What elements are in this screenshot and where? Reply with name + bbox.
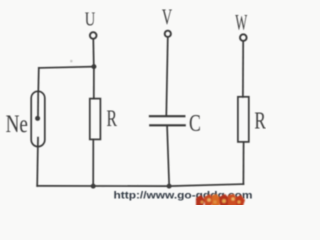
terminal W (240, 34, 247, 41)
wire resistor R1 bottom to rail (92, 140, 94, 187)
wire V terminal to capacitor (166, 37, 168, 116)
wire resistor R2 bottom to rail (242, 142, 244, 184)
terminal U (90, 32, 97, 39)
junction bottom middle (167, 184, 172, 189)
wire U terminal to top junction (92, 39, 95, 67)
bottom rail wire (37, 184, 243, 186)
resistor R1 body (90, 99, 101, 140)
wire junction to resistor R1 top (93, 67, 95, 99)
svg-text:C: C (189, 111, 201, 137)
wire capacitor to bottom rail (167, 126, 169, 186)
svg-text:U: U (85, 9, 96, 31)
neon lamp top electrode (37, 92, 39, 117)
capacitor C bottom plate (150, 124, 185, 126)
svg-text:V: V (162, 4, 172, 29)
resistor R2 body (238, 97, 249, 142)
wire lamp branch upper (37, 68, 40, 92)
terminal V (165, 31, 171, 37)
junction bottom left (91, 184, 96, 189)
svg-text:R: R (254, 108, 266, 135)
junction top (91, 64, 96, 69)
background paper (0, 0, 266, 205)
wire W terminal to resistor R2 top (242, 41, 244, 97)
svg-text:W: W (235, 10, 247, 35)
wire top horizontal to lamp branch (39, 67, 94, 68)
capacitor C top plate (150, 115, 185, 117)
paper speck (70, 60, 72, 62)
neon lamp dot electrode (35, 116, 40, 121)
neon lamp bottom electrode and wire to bottom rail (36, 138, 39, 186)
neon lamp Ne envelope (31, 91, 45, 146)
svg-text:Ne: Ne (6, 111, 28, 138)
svg-text:R: R (107, 106, 118, 132)
watermark red logo blobs (196, 194, 245, 206)
